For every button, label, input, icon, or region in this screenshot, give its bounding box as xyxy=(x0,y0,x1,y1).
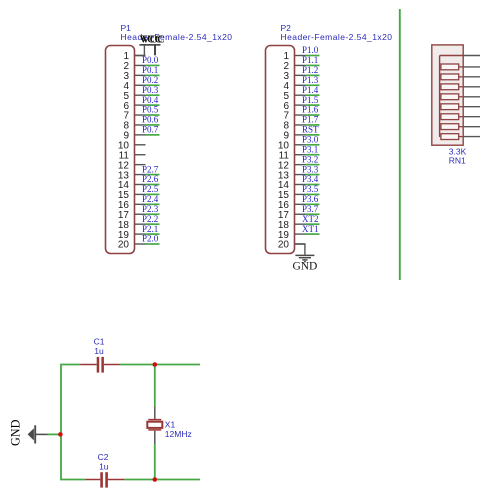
svg-text:P0.4: P0.4 xyxy=(142,95,159,105)
svg-text:X1: X1 xyxy=(165,420,176,430)
svg-text:20: 20 xyxy=(118,240,130,251)
svg-text:P2.6: P2.6 xyxy=(142,174,159,184)
svg-text:P2.4: P2.4 xyxy=(142,194,159,204)
svg-text:P1.6: P1.6 xyxy=(302,105,319,115)
svg-text:XT2: XT2 xyxy=(302,214,319,224)
svg-text:P1.7: P1.7 xyxy=(302,115,319,125)
svg-text:P3.1: P3.1 xyxy=(302,144,318,154)
svg-text:P1.1: P1.1 xyxy=(302,55,318,65)
svg-text:GND: GND xyxy=(8,419,22,446)
svg-text:P0.7: P0.7 xyxy=(142,125,159,135)
svg-text:P2.0: P2.0 xyxy=(142,234,159,244)
svg-text:P2.5: P2.5 xyxy=(142,184,159,194)
svg-text:XT1: XT1 xyxy=(302,224,319,234)
svg-text:1u: 1u xyxy=(94,346,104,356)
svg-text:P1.4: P1.4 xyxy=(302,85,319,95)
svg-text:C2: C2 xyxy=(98,452,109,462)
svg-text:RN1: RN1 xyxy=(449,156,466,166)
svg-text:P0.2: P0.2 xyxy=(142,75,158,85)
svg-text:P1.5: P1.5 xyxy=(302,95,319,105)
svg-text:P3.3: P3.3 xyxy=(302,164,319,174)
svg-text:P2.2: P2.2 xyxy=(142,214,158,224)
svg-text:P3.2: P3.2 xyxy=(302,154,318,164)
svg-text:P2.1: P2.1 xyxy=(142,224,158,234)
svg-text:P2.3: P2.3 xyxy=(142,204,159,214)
svg-text:P3.0: P3.0 xyxy=(302,134,319,144)
svg-text:P1.3: P1.3 xyxy=(302,75,319,85)
svg-text:Header-Female-2.54_1x20: Header-Female-2.54_1x20 xyxy=(281,32,393,42)
svg-text:P0.1: P0.1 xyxy=(142,65,158,75)
svg-text:VCC: VCC xyxy=(142,34,165,45)
svg-text:P0.5: P0.5 xyxy=(142,105,159,115)
svg-text:P3.5: P3.5 xyxy=(302,184,319,194)
svg-text:P2.7: P2.7 xyxy=(142,164,159,174)
svg-text:1u: 1u xyxy=(99,461,109,471)
svg-text:P3.4: P3.4 xyxy=(302,174,319,184)
svg-text:Header-Female-2.54_1x20: Header-Female-2.54_1x20 xyxy=(121,32,233,42)
svg-text:P1.2: P1.2 xyxy=(302,65,318,75)
svg-text:20: 20 xyxy=(278,240,290,251)
svg-text:P0.6: P0.6 xyxy=(142,115,159,125)
svg-text:GND: GND xyxy=(292,261,317,273)
svg-text:P0.3: P0.3 xyxy=(142,85,159,95)
svg-text:12MHz: 12MHz xyxy=(165,429,192,439)
svg-text:RST: RST xyxy=(302,125,319,135)
svg-text:P1.0: P1.0 xyxy=(302,45,319,55)
svg-text:P0.0: P0.0 xyxy=(142,55,159,65)
svg-text:P3.7: P3.7 xyxy=(302,204,319,214)
svg-text:P3.6: P3.6 xyxy=(302,194,319,204)
